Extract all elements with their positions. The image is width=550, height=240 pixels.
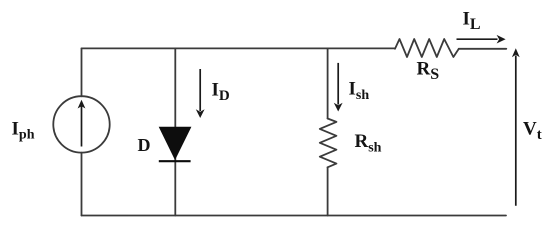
resistor Rsh zigzag xyxy=(320,119,337,168)
resistor Rs zigzag xyxy=(395,39,459,57)
wire bottom bus xyxy=(82,215,507,217)
diode D symbol (triangle) xyxy=(160,127,191,159)
wire left branch upper (source to top bus) xyxy=(81,48,83,96)
wire diode branch xyxy=(174,48,176,215)
arrow V_t (terminal voltage, points up) xyxy=(512,48,520,206)
arrow I_D (current into diode) xyxy=(196,69,205,118)
wire top bus from current source to Rs xyxy=(82,47,396,49)
svg-text:Rsh: Rsh xyxy=(355,131,382,156)
svg-text:Ish: Ish xyxy=(349,78,370,103)
wire top right from Rs to output node xyxy=(459,48,507,50)
wire left branch lower (source to bottom bus) xyxy=(81,153,83,216)
svg-text:ID: ID xyxy=(212,80,230,105)
svg-text:D: D xyxy=(138,135,151,155)
svg-text:IL: IL xyxy=(463,9,481,34)
wire shunt branch upper xyxy=(327,48,329,118)
svg-text:RS: RS xyxy=(417,59,440,84)
diode D cathode bar xyxy=(159,160,191,162)
current source internal arrow xyxy=(78,100,86,147)
arrow I_sh (current into shunt) xyxy=(334,63,343,112)
svg-text:Iph: Iph xyxy=(12,118,35,142)
current source I_ph circle xyxy=(53,96,109,152)
arrow I_L (load current, points right) xyxy=(457,35,506,44)
wire shunt branch lower xyxy=(327,167,329,215)
svg-text:Vt: Vt xyxy=(523,119,542,144)
